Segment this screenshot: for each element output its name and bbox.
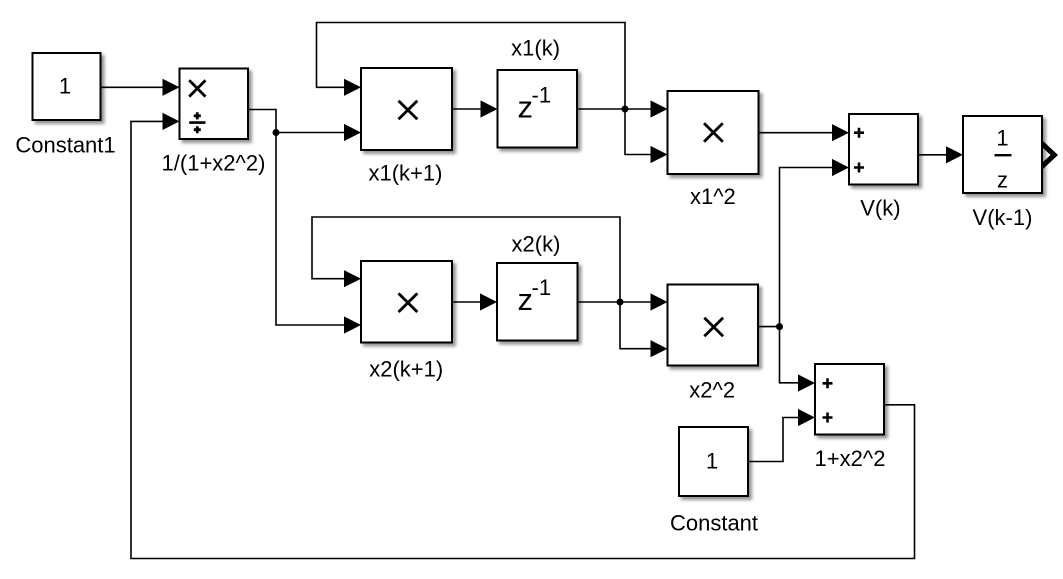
svg-text:x2(k+1): x2(k+1) [369,357,443,382]
sum block V(k) [849,114,918,185]
product block x2(k+1) [361,261,452,343]
svg-text:x1(k+1): x1(k+1) [369,160,443,185]
output port chevron [1043,141,1058,169]
unit delay block V(k-1) [963,116,1042,193]
svg-text:1/(1+x2^2): 1/(1+x2^2) [162,150,266,175]
wire Constant1 to Product [101,86,165,88]
product block x2^2 [668,285,759,366]
wire Sum V(k) to Unit Delay 1/z [918,154,948,156]
svg-text:x2(k): x2(k) [512,231,561,256]
sum block 1+x2^2 [815,364,884,435]
svg-text:-1: -1 [532,83,552,108]
wire x1(k+1) to Unit Delay x1 [452,108,482,110]
svg-text:1: 1 [996,126,1008,151]
wire x2 junction down to x2^2 input 2 [620,302,652,349]
unit delay block x1(k) [498,70,578,148]
wire feedback loop from Sum 1+x2^2 output to divide input [131,121,915,558]
wire x2 feedback up and over to x2(k+1) input 1 [312,217,620,302]
wire junction to x2(k+1) input 2 [276,133,346,326]
svg-text:x1(k): x1(k) [511,36,560,61]
svg-text:1+x2^2: 1+x2^2 [815,446,886,471]
svg-text:V(k-1): V(k-1) [973,205,1033,230]
wire x2^2 output to junction [758,326,780,328]
constant block Constant [679,427,748,496]
svg-text:x1^2: x1^2 [690,184,736,209]
constant block Constant1 [33,53,101,120]
wire junction up to Sum V(k) input 2 [780,168,835,327]
node junction dot B [622,106,629,113]
svg-text:V(k): V(k) [860,196,900,221]
node junction dot D [776,323,783,330]
wire x1^2 output to Sum V(k) input 1 [759,132,835,134]
node junction dot A [273,129,280,136]
svg-text:-1: -1 [532,275,552,300]
product block x1(k+1) [361,68,452,150]
wire junction down to Sum 1+x2^2 input 1 [780,327,801,383]
wire Unit Delay x1 output to x1^2 input 1 [577,108,652,110]
wire x1 feedback up and over to x1(k+1) input 1 [317,23,626,110]
wire junction to x1(k+1) input 2 [276,132,346,134]
wire Product output to junction [248,110,276,133]
svg-text:x2^2: x2^2 [689,378,735,403]
wire Unit Delay x2 output to x2^2 input 1 [578,301,653,303]
svg-text:z: z [997,168,1008,193]
svg-text:1: 1 [706,448,718,473]
svg-text:Constant1: Constant1 [15,132,115,157]
wire x1 junction down to x1^2 input 2 [625,109,652,155]
svg-text:Constant: Constant [670,511,758,536]
product block x1^2 [668,91,759,174]
node junction dot C [617,299,624,306]
unit delay block x2(k) [497,263,578,341]
wire x2(k+1) to Unit Delay x2 [452,301,482,303]
wire Constant to Sum 1+x2^2 input 2 [748,418,800,462]
product/divide block 1/(1+x2^2) [180,69,249,140]
svg-text:1: 1 [59,74,71,99]
